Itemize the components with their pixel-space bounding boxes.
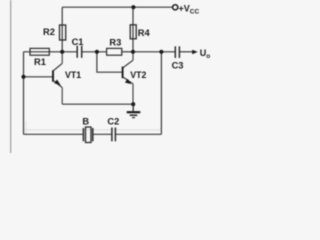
svg-text:R1: R1 [34, 57, 46, 67]
svg-text:C2: C2 [107, 117, 119, 127]
ground [127, 104, 141, 117]
svg-text:B: B [82, 117, 89, 127]
resistor R2 [60, 25, 66, 40]
svg-text:R3: R3 [109, 38, 121, 48]
capacitor C2 [112, 128, 116, 142]
svg-text:Uo: Uo [200, 48, 211, 60]
wire C3 to output [179, 51, 193, 53]
wire C1 to node B [82, 51, 107, 53]
svg-text:VT2: VT2 [130, 70, 146, 80]
output arrow [192, 50, 198, 55]
wire bottom feedback left [24, 133, 84, 135]
junction node C [131, 50, 135, 54]
junction VT1 base [21, 75, 25, 79]
resistor R1 [30, 48, 49, 55]
wire right vertical [160, 52, 162, 135]
capacitor C3 [175, 46, 179, 58]
terminal +Vcc [173, 5, 178, 10]
wire between B and C2 [93, 133, 112, 135]
transistor VT1 [53, 52, 62, 104]
wire R3 to node C [122, 51, 133, 53]
resistor R3 [107, 48, 122, 55]
junction node A [60, 50, 64, 54]
junction node D [159, 50, 163, 54]
junction R4 top [131, 5, 135, 9]
svg-text:C3: C3 [172, 61, 184, 71]
wire R2 branch [61, 7, 63, 52]
scan ghost line above bottom wire [24, 129, 162, 131]
svg-text:C1: C1 [72, 37, 84, 47]
svg-text:+VCC: +VCC [179, 3, 200, 15]
wire left vertical [23, 52, 25, 135]
svg-text:R2: R2 [43, 27, 55, 37]
wire node C to C3 [133, 51, 175, 53]
wire emitter rail [62, 103, 133, 105]
wire top rail [62, 6, 172, 8]
resistor R4 [130, 25, 136, 39]
svg-text:VT1: VT1 [65, 70, 81, 80]
wire VT2 base drop [97, 52, 122, 72]
capacitor C1 [77, 46, 82, 58]
wire main left segment [23, 51, 77, 53]
junction node B [95, 50, 99, 54]
page border line [10, 0, 12, 153]
wire R4 branch [132, 7, 134, 52]
transistor VT2 [123, 52, 133, 104]
wire C2 to right vertical [115, 133, 161, 135]
junction emitter ground [131, 102, 135, 106]
crystal B [83, 127, 92, 143]
svg-text:R4: R4 [138, 28, 151, 38]
wire VT1 base [24, 76, 53, 78]
